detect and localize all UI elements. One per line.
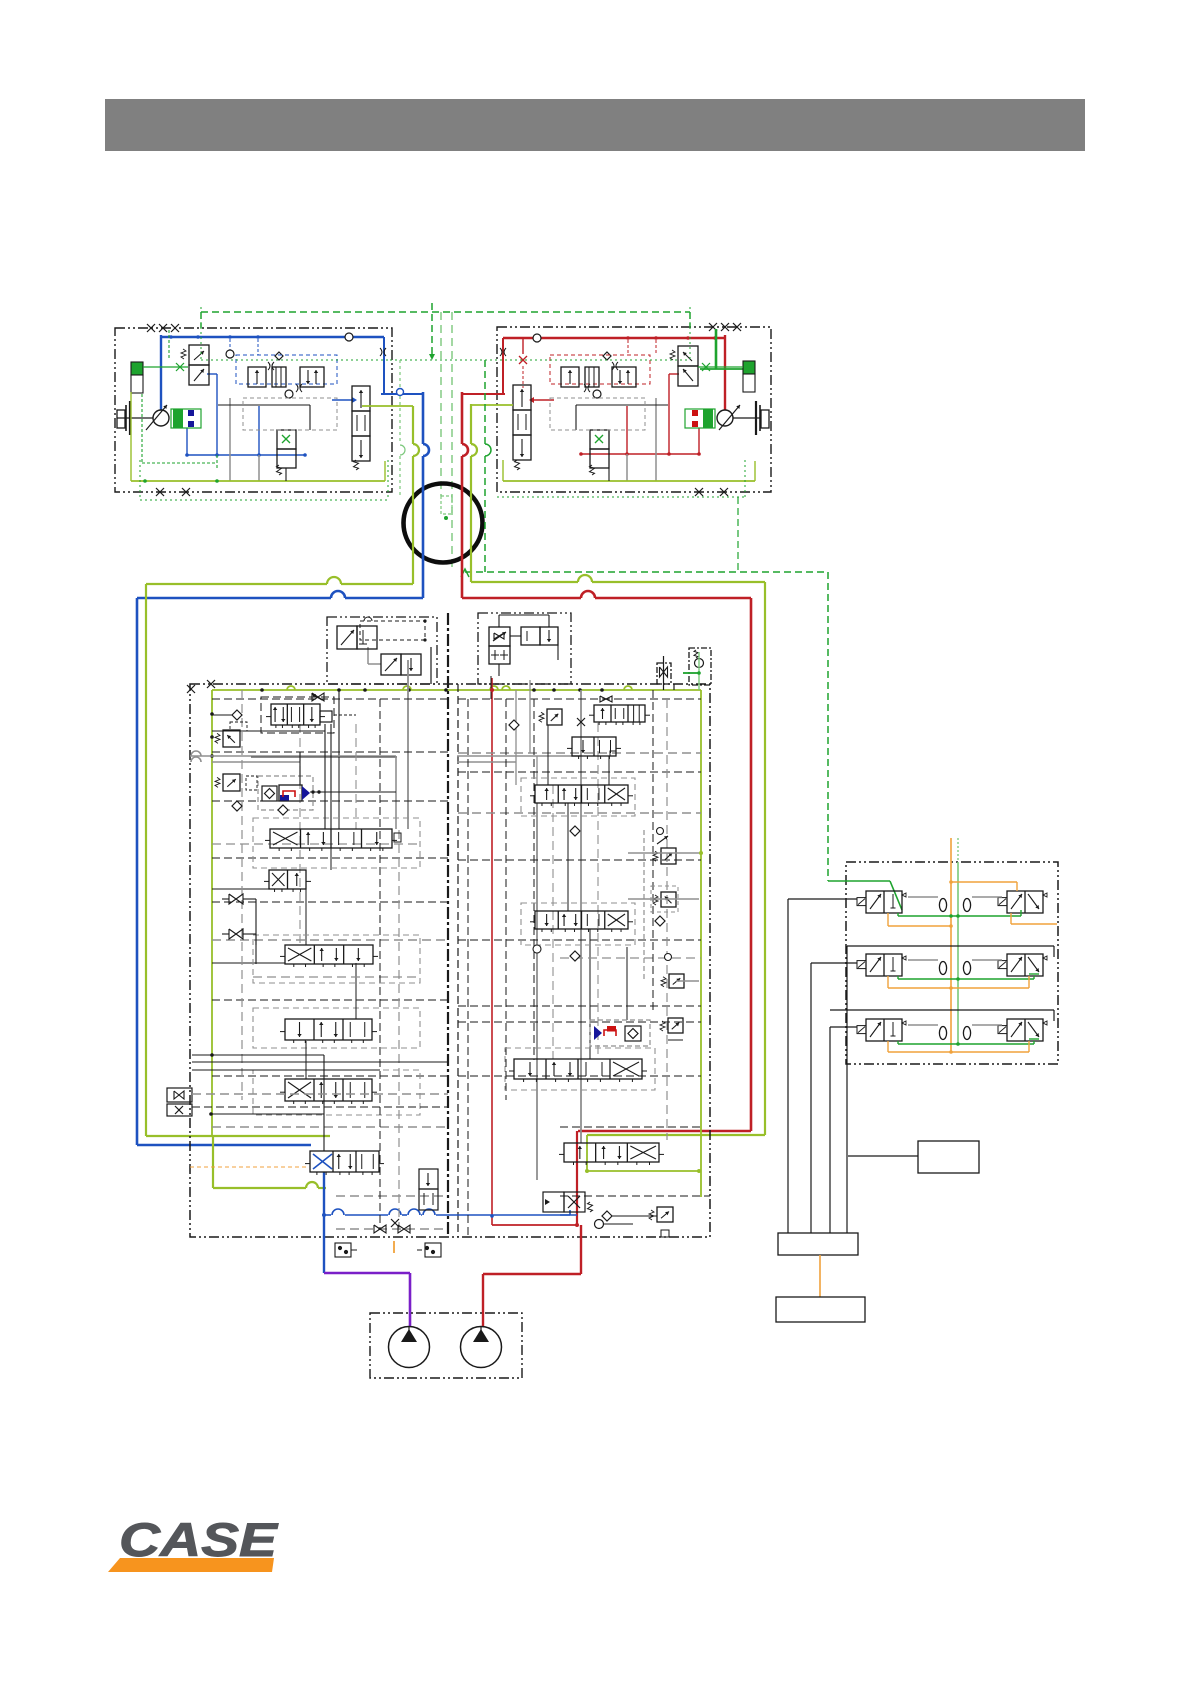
relief valve RB top — [547, 709, 562, 725]
travel motor right — [717, 410, 733, 426]
wire black to connector box — [848, 1155, 918, 1157]
spool valve L8 travel-left — [285, 945, 373, 964]
pale green dashed verticals center — [440, 312, 442, 496]
shuttle stack left block — [352, 386, 370, 411]
valve B2 — [521, 627, 540, 645]
spool valve R3 arm — [535, 785, 628, 803]
parking brake piston left — [171, 409, 201, 428]
solenoid valve left row1 — [866, 891, 902, 913]
pilot valve cells right block — [561, 367, 579, 387]
wire blue drop left block — [383, 337, 385, 394]
gray drains left block — [229, 398, 231, 481]
green sensor line right — [698, 366, 743, 368]
red X mark — [519, 356, 527, 364]
top right corner box — [689, 648, 711, 685]
throttle marks left block — [380, 348, 382, 356]
pilot valve cells left block — [248, 367, 266, 387]
gray drains right block — [655, 398, 657, 481]
gray pilot dashed box right — [550, 398, 645, 430]
corner marks main block — [187, 685, 195, 693]
swing brake valve dark — [258, 776, 313, 810]
wire black valve connectors — [338, 757, 340, 829]
wire black pilot 5 — [830, 1026, 857, 1028]
valve L6 — [269, 870, 306, 889]
wire black pilot 3 — [811, 962, 857, 964]
pilot return lightgreen vertical — [957, 862, 959, 1045]
orange link controller — [819, 1255, 821, 1297]
speed sensor green box right — [743, 361, 755, 374]
top right throttle — [657, 663, 671, 684]
zoom callout circle — [404, 484, 483, 563]
check valve circles right block — [533, 334, 541, 342]
pilot line green dashed right drop — [689, 312, 691, 327]
green link row1 — [898, 915, 1021, 917]
junction dots tank line — [210, 712, 214, 716]
check diamond R3 — [570, 826, 580, 836]
junction dots red — [713, 336, 717, 340]
sub-block A border — [327, 617, 437, 684]
green dashed stub right block bottom — [737, 497, 739, 572]
green dashed pilot lines left block — [168, 330, 170, 360]
relief valve R5 — [661, 892, 676, 907]
gearbox flange right — [761, 410, 769, 428]
throttle marks right block — [500, 348, 502, 356]
pale green dashed gauge box — [441, 496, 452, 514]
spool valve R6 bucket — [535, 911, 628, 929]
gray links row3 — [908, 1024, 938, 1026]
counterbalance valve right block — [590, 430, 609, 449]
green link row3 — [898, 1043, 1034, 1045]
gray links row1 — [908, 896, 938, 898]
black feed lines left column — [192, 1054, 324, 1056]
wire black gallery links — [212, 730, 325, 732]
blue dashed stubs to pilot box — [229, 339, 231, 355]
hose blue left travel — [422, 392, 425, 444]
spool valve L10 with X — [285, 1079, 372, 1101]
gray gallery lines — [191, 751, 201, 756]
pale dotted vertical x400 — [399, 360, 401, 444]
hose blue to pump purple transition — [323, 1215, 325, 1273]
wire blue supply left block — [161, 336, 384, 338]
hose lightgreen right travel — [470, 404, 472, 444]
relief valve right block — [678, 346, 698, 366]
relief valve left block R1 — [189, 345, 209, 365]
spool valve R10 — [564, 1143, 659, 1162]
black dashed gallery columns — [241, 690, 243, 1100]
port marks X bottom right block — [695, 488, 703, 496]
throttle bowtie L7b — [229, 929, 243, 939]
wire red pilot bus — [581, 453, 699, 455]
hose blue bottom run — [323, 1172, 325, 1215]
pilot dotted green center cross — [390, 359, 500, 361]
solenoid valve A1 — [337, 626, 357, 649]
spool valve R9 — [514, 1059, 642, 1079]
hose lightgreen left inner loop — [213, 1135, 330, 1137]
pilot manifold border — [846, 862, 1058, 1064]
green sensor line — [143, 366, 188, 368]
valve R11 with X — [543, 1192, 564, 1212]
pilot line green dashed center drop with arrow — [431, 303, 433, 355]
wire lightgreen return right block — [503, 480, 755, 482]
gray dashed boxes galleries — [253, 818, 420, 868]
orange link row3 — [887, 1041, 889, 1052]
spool valve L9 — [285, 1019, 372, 1040]
wire black pilot 2 — [847, 945, 1054, 947]
wire lightgreen return left block — [131, 480, 385, 482]
extra gallery columns — [299, 724, 301, 945]
pump unit border — [370, 1313, 522, 1378]
relief valve L2 — [223, 730, 240, 747]
hose lightgreen left travel — [412, 406, 414, 444]
solenoid valve right row2 — [1007, 954, 1043, 976]
header title bar — [105, 99, 1085, 151]
throttle bowtie L7a — [229, 894, 243, 904]
pump 1 circle — [389, 1327, 430, 1368]
check circle on blue hose — [397, 389, 404, 396]
controller box B2 — [778, 1233, 858, 1255]
wire red supply right block — [503, 337, 725, 339]
check valve circle left block — [345, 333, 353, 341]
inner tank line lightgreen — [212, 689, 701, 691]
center divider dash-dot — [447, 613, 449, 1237]
wire blue short — [560, 1214, 577, 1216]
track motor block right border — [497, 327, 771, 492]
hose purple pump 1 — [324, 1272, 410, 1275]
wire black network right block — [576, 404, 668, 406]
pilot supply orange vertical — [950, 838, 952, 1053]
check diamond L1 — [232, 710, 242, 720]
main control valve border — [190, 684, 710, 1237]
gauge ports bottom — [335, 1243, 351, 1257]
sub-block B border — [478, 613, 571, 684]
gray links right column — [628, 852, 699, 854]
orange top right link — [951, 881, 1017, 883]
coil symbols row3 — [939, 1027, 946, 1040]
wire black pilot 1 — [788, 898, 857, 900]
gray pilot dashed box left — [243, 398, 337, 430]
swing brake valve right dark — [590, 1020, 650, 1046]
counterbalance valve left block — [277, 430, 296, 449]
orange link row1 — [887, 913, 889, 926]
bowtie row bottom — [374, 1225, 386, 1233]
dotted box sub-block A — [360, 621, 425, 640]
battery box B3 — [776, 1297, 865, 1322]
supply red center — [491, 678, 493, 1225]
return red to pump — [576, 1160, 578, 1225]
red dashed stubs to pilot box — [627, 340, 629, 355]
track motor block left border — [115, 328, 392, 492]
tank line lightgreen right entry drop — [586, 1135, 588, 1171]
green dotted surround right block — [497, 496, 745, 498]
relief valve R4 — [661, 848, 676, 864]
straight travel spool L12 — [310, 1151, 379, 1172]
inlet section L11 — [167, 1088, 192, 1102]
solenoid valve right row3 — [1007, 1019, 1043, 1041]
spool valve R1 top — [594, 705, 645, 722]
orange link row2 — [887, 976, 889, 988]
CASE logo orange underline — [108, 1558, 274, 1572]
coil symbols row1 — [939, 899, 946, 912]
pilot line green dashed top loop — [201, 311, 690, 313]
gallery dashed box L1 — [261, 697, 334, 733]
extra gallery rows — [212, 843, 420, 845]
spool valve L1 boom1 — [271, 704, 320, 725]
speed sensor green box left — [131, 362, 143, 375]
green supply right block — [715, 329, 718, 369]
wire black sub-block B — [498, 615, 500, 627]
connector box B1 — [918, 1141, 979, 1173]
port marks X top right block — [709, 323, 717, 331]
black dashed gallery rows — [212, 698, 448, 700]
relief valve R12 — [657, 1207, 673, 1222]
accumulator valve B1 — [489, 627, 510, 646]
gray links row2 — [908, 959, 938, 961]
junction dots hoses — [490, 688, 494, 692]
red drop entering R10 — [576, 1131, 578, 1160]
relief valve R7 bottom — [669, 974, 684, 988]
solenoid valve right row1 — [1007, 891, 1043, 913]
valve L13 two stage — [419, 1169, 438, 1189]
solenoid valve left row3 — [866, 1019, 902, 1041]
pilot dashed red box right — [550, 355, 650, 384]
wire blue relief link — [207, 373, 217, 375]
wire blue pilot bus — [187, 454, 305, 456]
shuttle stack right block — [513, 385, 531, 410]
valve R2 — [572, 737, 616, 756]
check circle R6 — [533, 945, 541, 953]
travel motor left — [153, 410, 169, 426]
hose red right travel — [461, 392, 464, 444]
relief valve R8 — [668, 1018, 683, 1033]
pump 2 circle — [461, 1327, 502, 1368]
tank line humps — [490, 686, 498, 690]
junction dots blue — [169, 335, 173, 339]
gearbox flange left — [117, 410, 125, 428]
orange pilot stub — [393, 1241, 395, 1253]
green dotted surround left block — [140, 499, 388, 501]
port marks X top left block — [147, 324, 155, 332]
pilot line green dashed elbow to pilot manifold — [484, 360, 486, 444]
gray dashed boxes lower galleries — [253, 1008, 420, 1048]
brake shuttle dashed box left — [236, 355, 337, 384]
spool valve L5 swing — [270, 829, 392, 848]
wire black network left block — [218, 404, 310, 406]
coil symbols row2 — [939, 962, 946, 975]
relief valve L3 — [223, 774, 240, 791]
port marks X bottom left block — [156, 488, 164, 496]
solenoid valve left row2 — [866, 954, 902, 976]
pilot green feed entry — [828, 880, 890, 882]
solenoid valve A2 — [381, 654, 401, 675]
pilot line green dashed left drop — [200, 312, 202, 328]
orange dashed pilot row — [190, 1166, 308, 1168]
wire black L1 drop — [338, 690, 340, 757]
parking brake piston right — [685, 409, 715, 428]
wire red relief link — [669, 373, 679, 375]
wire black pilot 4 — [830, 1009, 1054, 1011]
green link row2 — [898, 978, 1034, 980]
check circles bottom right — [595, 1220, 604, 1229]
